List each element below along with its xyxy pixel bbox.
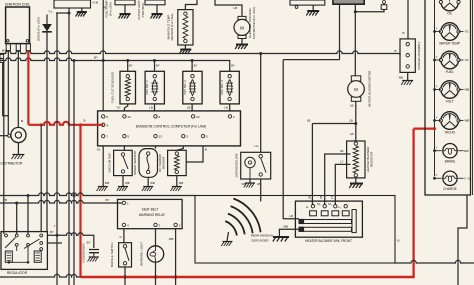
wire buckle switch to red <box>124 267 126 285</box>
ground oc thermo <box>171 187 182 192</box>
label VACUUM S/W <box>108 153 112 172</box>
label FUEL PUMP vertical <box>105 0 113 17</box>
svg-text:WB: WB <box>169 237 174 241</box>
svg-text:13: 13 <box>159 135 163 139</box>
svg-text:LB: LB <box>187 105 191 109</box>
ground igniter <box>306 11 319 16</box>
regulator box <box>1 232 47 270</box>
wire pin7 to ground <box>102 146 104 186</box>
VSV NO.2 box <box>183 71 202 104</box>
label B cooler <box>394 31 404 53</box>
label FUEL <box>446 70 454 74</box>
label LB defsw <box>257 182 261 186</box>
label LB top <box>103 6 107 10</box>
svg-text:WB: WB <box>150 181 155 185</box>
junction dot bus A defogger riser <box>259 52 262 55</box>
enclosure box bottom center <box>195 196 395 264</box>
relay pin 3 <box>154 223 161 227</box>
junction dot bus4 x16 <box>15 202 18 205</box>
WATER TEMP right stub <box>459 30 470 34</box>
computer top pin 10 <box>191 115 199 119</box>
svg-text:BY: BY <box>2 48 6 52</box>
gauge OIL (cut top) <box>439 0 460 16</box>
label ELECTRIC COOLING FAN MOTOR <box>248 7 256 39</box>
wire diode feed <box>46 15 48 25</box>
wire cooler to ground <box>407 72 409 80</box>
ground outer vent <box>150 14 162 19</box>
svg-text:Y, YL: Y, YL <box>464 177 471 181</box>
label LB motor <box>350 104 354 108</box>
label LB fan <box>233 6 237 10</box>
riser solenoid to bus2 <box>127 61 129 72</box>
wire x41 red to regulator <box>40 125 42 232</box>
svg-text:Y: Y <box>54 224 56 228</box>
wire resistor to ground <box>355 178 357 183</box>
labels heater sw feeds <box>308 196 334 200</box>
wire Y-L box right pin to ground <box>81 8 83 12</box>
label HEATER BLOWER SW FRONT <box>305 239 352 243</box>
svg-text:VSV NO. 3: VSV NO. 3 <box>220 80 224 95</box>
VSV NO.3 box <box>220 71 239 104</box>
bottom wire right of box <box>395 260 474 263</box>
svg-text:10: 10 <box>196 115 200 119</box>
box igniter (cut off) <box>290 0 325 8</box>
svg-text:WB: WB <box>398 76 403 80</box>
label Y BY reg <box>50 224 56 234</box>
svg-text:REGULATOR: REGULATOR <box>7 271 28 275</box>
WATER TEMP left pin <box>433 26 441 33</box>
ground for Y-L box <box>76 12 87 17</box>
wire vsv1 to computer pin9 <box>154 104 156 111</box>
label SPEED SENSOR <box>133 150 137 175</box>
ground heater resistor <box>349 184 363 189</box>
junction dot ign jog <box>354 10 357 13</box>
heater feed drop to blower switch bar1 <box>283 60 299 219</box>
svg-text:SEAT BELT: SEAT BELT <box>142 208 159 212</box>
heater blower switch box <box>295 201 362 237</box>
FUEL left pin <box>433 55 441 62</box>
ground distributor <box>12 155 25 160</box>
svg-text:RESISTOR: RESISTOR <box>370 151 374 167</box>
junction dot solenoid riser <box>126 59 129 62</box>
box outer vent control (cut off) <box>145 0 165 5</box>
label B pin5b <box>205 148 207 152</box>
wire vacuum sw to ground <box>122 176 124 186</box>
svg-text:H: H <box>306 205 308 209</box>
gauge VOLT <box>439 81 460 99</box>
svg-text:SENSOR (For USA): SENSOR (For USA) <box>170 13 174 40</box>
svg-text:DEFOGGER S/W: DEFOGGER S/W <box>234 153 238 177</box>
instrument panel box <box>425 0 473 195</box>
svg-text:LB: LB <box>350 104 354 108</box>
svg-text:Y: Y <box>436 173 438 177</box>
junction dot bus3 x28 <box>27 194 30 197</box>
wire fan motor to ground <box>241 39 243 45</box>
svg-text:Y: Y <box>436 115 438 119</box>
svg-text:WB: WB <box>105 181 110 185</box>
label MANIFOLD TEMP SENSOR <box>166 13 174 40</box>
svg-text:HEATER BLOWER MOTOR: HEATER BLOWER MOTOR <box>368 71 372 107</box>
label WB cooler <box>398 76 403 80</box>
junction dot vsv2 riser <box>191 59 194 62</box>
ignition coil box <box>6 7 31 51</box>
connector at left edge (BY) <box>0 50 9 63</box>
ground cooler <box>401 81 413 86</box>
red wire horizontal to computer pin 4 <box>28 122 103 125</box>
label B enclosure <box>398 239 400 243</box>
red junction dot branch down <box>79 123 82 126</box>
heater feed line from ignition switch <box>283 59 339 61</box>
wire outer vent to ground <box>156 5 158 14</box>
junction dot pin8 riser <box>102 59 105 62</box>
lamp CHARGE <box>443 171 457 185</box>
wire distributor to ground <box>17 142 19 154</box>
label WB hsw <box>283 224 288 228</box>
svg-text:COOLER ASSEMBLY: COOLER ASSEMBLY <box>417 41 421 69</box>
red wire bottom run <box>81 276 414 279</box>
wire rear window ground stub <box>227 232 229 241</box>
svg-text:M: M <box>240 25 244 30</box>
label FUEL CUT SOLENOID <box>111 71 115 103</box>
CHARGE right stub <box>458 177 471 181</box>
box Y-L (cut off top) <box>48 0 98 13</box>
label OUTER VENT CONTROL vertical <box>137 0 145 20</box>
svg-text:FUEL: FUEL <box>446 70 454 74</box>
wire igniter to ground <box>312 5 314 10</box>
label OC THERMO SENSOR <box>158 153 166 172</box>
riser pin8 to bus2 <box>102 61 104 111</box>
ground fuel pump <box>118 14 130 19</box>
svg-text:VSV NO. 2: VSV NO. 2 <box>183 80 187 95</box>
junction dot YL <box>68 12 71 15</box>
svg-text:B: B <box>21 119 23 123</box>
label VOLT <box>446 99 454 103</box>
wire fan motor feed from top <box>215 0 242 16</box>
svg-text:BY: BY <box>156 64 160 68</box>
computer bottom pin 5 <box>123 134 130 138</box>
wire relay pin3 to warning light <box>155 229 157 246</box>
riser vsv1 to bus2 <box>154 61 156 72</box>
bus 2 (BY wire, y60.5) <box>0 58 230 71</box>
svg-text:SPEED SENSOR: SPEED SENSOR <box>133 150 137 175</box>
svg-text:BUCKLE SWITCH: BUCKLE SWITCH <box>110 242 114 267</box>
svg-text:O-B: O-B <box>93 0 98 4</box>
svg-text:LB: LB <box>307 118 311 122</box>
heater sw terminals <box>306 202 347 209</box>
label G buckle <box>120 235 123 239</box>
svg-text:WARNING RELAY: WARNING RELAY <box>139 213 166 217</box>
svg-text:SENSOR: SENSOR <box>162 156 166 170</box>
wire into distributor from left <box>0 135 11 137</box>
junction dot x57 on BY wire <box>56 234 59 237</box>
junction dot motor branch <box>354 122 357 125</box>
label LG defogger <box>254 144 259 148</box>
svg-text:BY: BY <box>194 64 198 68</box>
computer bottom pin 13 <box>154 134 162 138</box>
wire pin3 to oc thermo sensor <box>177 146 184 150</box>
svg-text:LB: LB <box>149 105 153 109</box>
label REGULATOR <box>7 271 28 275</box>
svg-text:HEATER BLOWER S/W, FRONT: HEATER BLOWER S/W, FRONT <box>305 239 352 243</box>
svg-text:B: B <box>84 119 86 123</box>
lamp BRAKE <box>443 144 457 158</box>
svg-text:TACHO: TACHO <box>444 130 455 134</box>
vacuum switch box <box>114 150 133 175</box>
svg-text:LB: LB <box>233 6 237 10</box>
labels BY at vsv tops <box>129 64 235 68</box>
svg-text:CONTROL: CONTROL <box>141 2 145 17</box>
diode D1 (For USA) <box>42 24 52 32</box>
svg-text:VSV NO. 1: VSV NO. 1 <box>145 80 149 95</box>
red wire to tacho pin <box>414 128 435 130</box>
label LB tap1 <box>340 149 344 153</box>
label IGNITION COIL <box>5 2 30 6</box>
svg-text:B: B <box>205 148 207 152</box>
svg-text:BY: BY <box>94 56 98 60</box>
ground rear window <box>221 242 232 247</box>
wire jog to connector <box>355 3 384 11</box>
wire relay pin4 to buckle switch <box>123 229 125 243</box>
svg-text:LB: LB <box>308 196 312 200</box>
svg-text:WB: WB <box>283 224 288 228</box>
svg-text:LB: LB <box>103 6 107 10</box>
wire pin5b jog to oc sensor right <box>186 146 203 162</box>
box ignition switch (cut, gray fill) <box>333 0 364 4</box>
wire cooler feed from top <box>407 0 409 39</box>
svg-text:IGNITION COIL: IGNITION COIL <box>5 2 30 6</box>
svg-text:B: B <box>394 49 396 53</box>
junction dot bus2 x74 <box>73 59 76 62</box>
wire solenoid to computer pin12 <box>124 104 127 111</box>
VOLT left pin <box>433 84 441 91</box>
svg-text:Y: Y <box>436 84 438 88</box>
wire motor down <box>355 101 357 143</box>
svg-text:CHARGE: CHARGE <box>443 187 457 191</box>
label DIODE (For USA) <box>37 17 41 41</box>
long wire x74 <box>73 61 75 285</box>
bus 4 (BY to seat belt relay) <box>0 200 118 203</box>
red wire up right side <box>412 129 414 279</box>
BRAKE left pin <box>433 146 442 153</box>
svg-text:BY: BY <box>87 241 91 245</box>
label DEFOGGER S/W <box>234 153 238 177</box>
wire fuel pump to ground <box>124 5 126 14</box>
BRAKE right stub <box>458 149 469 153</box>
label VSV NO.1 <box>145 80 149 95</box>
label GL <box>97 148 101 152</box>
condenser C1 <box>89 250 99 257</box>
label CONDENSER <box>81 241 90 263</box>
labels WB at sensor grounds <box>105 181 184 185</box>
wire coil terminal 1 down <box>7 51 9 116</box>
distributor <box>11 127 26 142</box>
wire from top edge to bus2 x103 <box>102 0 104 61</box>
bus A (B wire, y53) <box>0 51 400 55</box>
heater sw WB wire to ground <box>279 229 299 236</box>
FUEL CUT SOLENOID box <box>120 71 136 104</box>
junction dot bus3 x74 <box>73 194 76 197</box>
label CHARGE <box>443 187 457 191</box>
svg-text:M₁: M₁ <box>328 202 332 206</box>
svg-text:Y: Y <box>436 146 438 150</box>
cooler assembly connector box <box>400 39 415 73</box>
label HEATER BLOWER MOTOR <box>368 71 372 107</box>
manifold temp sensor box <box>178 10 193 45</box>
wire defogger sw to rear window <box>260 179 262 202</box>
cooling fan motor M1 <box>234 16 250 38</box>
svg-text:FUEL CUT SOLENOID: FUEL CUT SOLENOID <box>111 71 115 103</box>
svg-text:(For USA): (For USA) <box>108 2 112 16</box>
svg-text:GL: GL <box>97 148 101 152</box>
computer top pin 9 <box>154 115 161 119</box>
wire Y-L box pin down <box>68 8 70 13</box>
distributor pin circle <box>8 134 11 137</box>
svg-text:LY: LY <box>340 159 343 163</box>
svg-text:BY: BY <box>129 64 133 68</box>
FUEL right stub <box>459 58 469 62</box>
svg-text:VACUUM S/W: VACUUM S/W <box>108 153 112 172</box>
wire defogger sw lamp to ground <box>249 179 251 183</box>
TACHO left pin <box>433 115 441 122</box>
svg-text:LB: LB <box>350 132 354 136</box>
label BRAKE <box>445 159 456 163</box>
ground defogger sw <box>244 183 255 188</box>
svg-text:Y-L: Y-L <box>48 9 53 13</box>
svg-text:YR: YR <box>465 58 469 62</box>
connector small square <box>381 1 387 10</box>
box fuel pump (cut off) <box>115 0 135 5</box>
label EMISSION CONTROL COMPUTER <box>136 125 207 129</box>
svg-text:WB: WB <box>465 119 470 123</box>
label LB resistor top <box>350 132 354 136</box>
label WB defsw <box>241 182 246 186</box>
wire bus4 into pin1 <box>118 202 123 204</box>
svg-text:WARNING LIGHT: WARNING LIGHT <box>140 242 144 266</box>
red wire from ignition coil down <box>27 51 29 125</box>
computer bottom pin 5 <box>201 134 208 138</box>
svg-text:Y: Y <box>436 26 438 30</box>
svg-text:WB: WB <box>465 88 470 92</box>
ground manifold sensor <box>179 50 191 55</box>
label TACHO <box>444 130 455 134</box>
labels at vsv bottoms <box>116 105 228 109</box>
TACHO right stub <box>459 119 470 123</box>
label WB pin2 <box>169 237 174 241</box>
relay pin 1 <box>122 201 129 205</box>
wire ign sw right leg down to motor <box>354 4 356 76</box>
wire diode cathode down to regulator <box>46 31 48 232</box>
wire oc thermo to ground <box>176 176 178 186</box>
wire connector to junction <box>3 63 9 116</box>
svg-text:BRAKE: BRAKE <box>445 159 456 163</box>
wire relay pin2 down to red <box>175 229 177 277</box>
riser vsv2 to bus2 <box>191 61 193 72</box>
svg-text:WATER TEMP: WATER TEMP <box>439 41 460 45</box>
svg-text:12: 12 <box>127 115 131 119</box>
wire vsv2 to computer pin10 <box>191 104 193 111</box>
computer pin 4 (red feed) <box>102 123 109 127</box>
regulator internals <box>5 234 43 264</box>
label LY tap2 <box>340 159 343 163</box>
resistor tap 1 <box>325 154 351 206</box>
wire right column down <box>458 195 467 285</box>
wire x4 left vertical <box>3 61 5 235</box>
wire BY regulator to condenser <box>47 233 93 248</box>
wire pin5 to vacuum sw <box>123 146 125 150</box>
wire ign sw left leg down <box>339 4 341 59</box>
svg-text:B: B <box>402 31 404 35</box>
computer bottom pin 3 <box>182 134 189 138</box>
heater H-pin wire <box>312 124 355 207</box>
computer bottom pin 7 <box>102 134 109 138</box>
wire regulator aux pin <box>47 242 62 244</box>
ground pin7 <box>97 187 108 192</box>
gauge WATER TEMP <box>439 23 460 41</box>
svg-text:WB: WB <box>179 181 184 185</box>
riser defogger switch <box>260 54 262 153</box>
long wire x66 <box>68 13 70 285</box>
buckle switch box <box>119 243 132 267</box>
VOLT right stub <box>459 88 470 92</box>
svg-text:LB: LB <box>224 105 228 109</box>
svg-text:CONDENSER: CONDENSER <box>81 243 85 263</box>
heater blower motor M2 <box>348 76 365 102</box>
label LB branch <box>307 118 353 122</box>
computer top pin 12 <box>123 115 131 119</box>
resistor tap 2 <box>335 164 350 206</box>
wire junction down to distributor <box>7 116 9 136</box>
label SEAT BELT WARNING RELAY <box>139 208 166 217</box>
wire manifold sensor top <box>185 0 197 10</box>
computer top pin 2 <box>228 115 235 119</box>
label BY busA <box>2 48 98 59</box>
wire pin2 below red <box>175 276 177 285</box>
wire coil terminal 2 to distributor top <box>17 51 19 128</box>
label DISTRIBUTOR <box>1 162 23 166</box>
label VSV NO.2 <box>183 80 187 95</box>
gauge FUEL <box>439 51 460 69</box>
heater blower resistor box <box>347 141 365 178</box>
CHARGE left pin <box>433 173 442 180</box>
label BUCKLE SWITCH <box>110 242 114 267</box>
wire pin13 to speed sensor <box>155 146 157 149</box>
red tacho junction dot <box>433 127 436 130</box>
label B red left <box>21 119 86 123</box>
wire manifold sensor to ground <box>184 45 186 49</box>
svg-text:REAR WINDOW: REAR WINDOW <box>251 234 274 238</box>
svg-text:BY: BY <box>105 198 109 202</box>
ground fan motor <box>235 45 248 50</box>
oc thermo sensor box <box>168 150 187 175</box>
label VSV NO.3 <box>220 80 224 95</box>
wire speed sensor to ground <box>147 177 149 186</box>
heater sw connector squares <box>310 211 349 216</box>
svg-text:M: M <box>354 87 358 92</box>
heater sw bars <box>299 210 356 233</box>
computer top pin 8 <box>102 115 109 119</box>
svg-text:EMISSION CONTROL COMPUTER (For: EMISSION CONTROL COMPUTER (For USA) <box>136 125 207 129</box>
ground heater sw <box>273 237 289 242</box>
ground speed sensor <box>142 187 153 192</box>
label LB hsw <box>289 214 293 218</box>
label YB bus4 <box>3 198 110 202</box>
svg-text:WB: WB <box>241 182 246 186</box>
svg-text:LB: LB <box>349 118 353 122</box>
wire jog y13 node <box>56 12 69 14</box>
label WATER TEMP <box>439 41 460 45</box>
relay pin 4 <box>122 223 129 227</box>
ground condenser <box>88 257 99 262</box>
